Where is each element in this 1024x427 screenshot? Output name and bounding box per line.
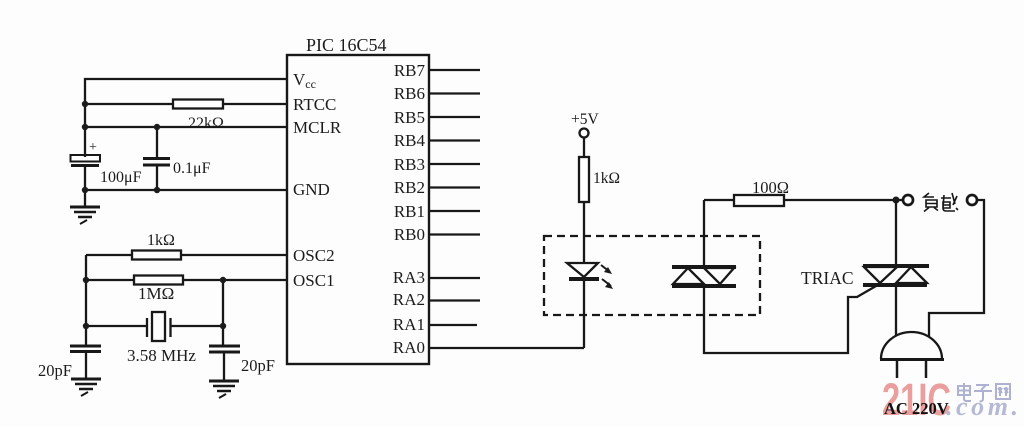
svg-text:OSC1: OSC1 xyxy=(293,271,335,290)
svg-text:1MΩ: 1MΩ xyxy=(138,284,174,303)
svg-text:0.1μF: 0.1μF xyxy=(173,160,211,177)
node junction GND rail xyxy=(82,187,88,193)
LED D1 (optocoupler emitter) xyxy=(567,263,613,289)
opto photo-triac (optocoupler detector) xyxy=(672,267,736,286)
resistor R3 1MΩ (OSC1) xyxy=(86,276,287,304)
TRIAC Q1 xyxy=(801,266,929,288)
svg-text:RB3: RB3 xyxy=(394,155,425,174)
svg-text:.com.: .com. xyxy=(946,392,1018,421)
wire RB2 stub xyxy=(429,186,480,188)
node junction crystal left xyxy=(83,323,89,329)
capacitor C4 20pF (right) xyxy=(209,346,275,375)
node junction OSC1 right xyxy=(220,277,226,283)
svg-text:20pF: 20pF xyxy=(241,356,275,375)
node junction crystal right xyxy=(220,323,226,329)
svg-text:GND: GND xyxy=(293,180,330,199)
node +5V terminal xyxy=(571,111,599,138)
wire RB6 stub xyxy=(429,92,480,94)
wire RA0 to optocoupler LED xyxy=(429,347,584,349)
node junction 0.1µF top xyxy=(154,124,160,130)
svg-text:+5V: +5V xyxy=(571,111,599,128)
svg-text:RB6: RB6 xyxy=(394,84,425,103)
wire MCLR to rail xyxy=(85,126,287,128)
wire RB3 stub xyxy=(429,163,480,165)
wire R4 to LED anode xyxy=(583,202,585,263)
svg-text:RB2: RB2 xyxy=(394,178,425,197)
svg-text:RB4: RB4 xyxy=(394,131,426,150)
ground under power rail xyxy=(70,190,100,224)
svg-text:RTCC: RTCC xyxy=(293,95,336,114)
label 负载 (load) xyxy=(924,193,958,212)
wire load node down to TRIAC xyxy=(895,200,897,266)
watermark 电子网 xyxy=(958,383,1010,402)
crystal X1 3.58MHz xyxy=(86,312,223,365)
svg-text:RA2: RA2 xyxy=(393,290,425,309)
wire RB5 stub xyxy=(429,116,480,118)
ground under right 20pF xyxy=(209,352,239,398)
wire RB7 stub xyxy=(429,69,480,71)
svg-text:MCLR: MCLR xyxy=(293,118,342,137)
node junction Vcc/RTCC xyxy=(82,101,88,107)
svg-text:RA1: RA1 xyxy=(393,315,425,334)
wire rail below 100µF xyxy=(84,166,86,190)
svg-text:20pF: 20pF xyxy=(38,361,72,380)
wire +5V to R4 xyxy=(583,138,585,158)
resistor R4 1kΩ (pull-up) xyxy=(579,157,620,202)
wire TRIAC to plug left prong xyxy=(895,287,897,339)
capacitor C3 20pF (left) xyxy=(38,346,101,380)
svg-text:3.58 MHz: 3.58 MHz xyxy=(127,346,196,365)
svg-text:100μF: 100μF xyxy=(100,169,142,186)
svg-text:+: + xyxy=(89,140,97,155)
wire RB1 stub xyxy=(429,210,480,212)
resistor R5 100Ω xyxy=(734,178,789,206)
svg-text:Vcc: Vcc xyxy=(293,70,316,91)
wire GND pin to rail xyxy=(85,189,287,191)
wire 100Ω to load node xyxy=(784,199,903,201)
ground under left 20pF xyxy=(71,352,101,397)
AC plug P1 xyxy=(880,332,944,378)
svg-text:RB5: RB5 xyxy=(394,108,425,127)
node load terminal right xyxy=(967,195,977,205)
svg-text:100Ω: 100Ω xyxy=(752,178,789,197)
svg-text:1kΩ: 1kΩ xyxy=(147,232,175,249)
svg-text:RA0: RA0 xyxy=(393,338,425,357)
resistor R2 1kΩ (OSC2) xyxy=(86,232,287,260)
node junction load xyxy=(893,197,900,204)
resistor R1 22kΩ xyxy=(85,100,287,133)
optocoupler U2 dashed box xyxy=(544,236,760,315)
capacitor C1 100µF xyxy=(71,140,142,186)
wire RB0 stub xyxy=(429,233,480,235)
watermark 21IC xyxy=(882,374,951,425)
svg-text:RA3: RA3 xyxy=(393,268,425,287)
svg-text:1kΩ: 1kΩ xyxy=(593,170,620,187)
wire top loop corner to 100Ω xyxy=(704,199,734,201)
node junction OSC1 rail xyxy=(83,277,89,283)
svg-text:22kΩ: 22kΩ xyxy=(188,115,224,132)
svg-text:RB7: RB7 xyxy=(394,61,426,80)
wire RA2 stub xyxy=(429,299,480,301)
wire opto triac top xyxy=(703,200,705,266)
node junction MCLR rail xyxy=(82,124,88,130)
svg-text:OSC2: OSC2 xyxy=(293,246,335,265)
node load terminal left xyxy=(903,195,913,205)
svg-text:PIC 16C54: PIC 16C54 xyxy=(306,35,387,55)
svg-text:TRIAC: TRIAC xyxy=(801,268,854,288)
wire opto triac bottom to gate run xyxy=(704,286,876,353)
svg-text:RB0: RB0 xyxy=(394,225,425,244)
capacitor C2 0.1µF xyxy=(143,127,211,190)
wire osc right branch xyxy=(222,280,224,346)
wire RA1 stub xyxy=(429,324,477,326)
svg-text:AC 220V: AC 220V xyxy=(884,399,949,418)
wire RA3 stub xyxy=(429,277,480,279)
wire LED cathode to RA0 xyxy=(583,279,585,348)
node junction 0.1µF bottom xyxy=(154,187,160,193)
wire RB4 stub xyxy=(429,139,480,141)
wire osc left rail xyxy=(85,255,87,346)
wire load right to plug right prong xyxy=(929,200,984,339)
IC U1 PIC 16C54 xyxy=(287,35,429,364)
wire Vcc pin to left rail xyxy=(85,79,287,157)
svg-text:RB1: RB1 xyxy=(394,202,425,221)
